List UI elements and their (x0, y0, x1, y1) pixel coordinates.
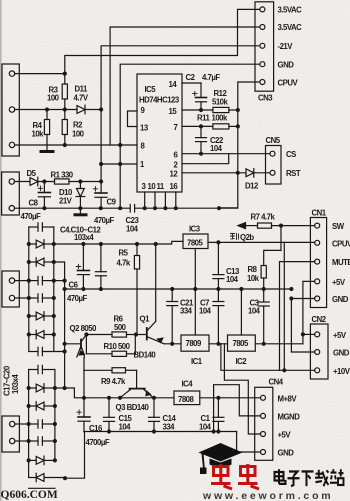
CN4 pin +5V (261, 432, 266, 437)
svg-text:470µF: 470µF (67, 294, 88, 303)
svg-text:R10 500: R10 500 (104, 342, 131, 351)
wire MUTE down column (279, 262, 281, 371)
wire bus to CN4 GND (237, 432, 261, 453)
svg-text:C9: C9 (107, 198, 117, 207)
svg-text:Q2b: Q2b (240, 233, 254, 242)
svg-text:CN4: CN4 (269, 378, 284, 387)
nodes on 14V bus (81, 242, 157, 246)
svg-text:510k: 510k (212, 98, 229, 107)
node at (64.8,145) (63, 143, 67, 147)
node D10 top (78, 179, 82, 183)
node CPUV crossing pin12 (236, 171, 240, 175)
wire CPUV: CN3 pin5 down to bus (219, 82, 260, 208)
capacitor C15 104 (104, 398, 115, 432)
node C8 top (42, 179, 46, 183)
wire R9 right to Q3 base (136, 370, 138, 388)
resistor R5 4.7k (vertical) (134, 244, 139, 334)
wire 11V bus into IC4 (65, 388, 174, 398)
connector J4 (2-pin, bottom) (2, 416, 19, 452)
wire Q2 emitter / R9 left down to 8V bus (83, 370, 85, 398)
svg-text:103x4: 103x4 (11, 374, 20, 394)
wire 3.5VAC-2: CN3 pin2 down left column (110, 27, 260, 145)
capacitor C1 104 (213, 398, 224, 432)
wire IC5 pin15 (182, 109, 213, 111)
capacitor C7 104 (213, 289, 224, 344)
svg-text:4.7k: 4.7k (117, 259, 131, 268)
svg-text:R8: R8 (248, 265, 258, 274)
ground bar under R4 (41, 150, 53, 153)
svg-text:www.eeworm.com: www.eeworm.com (202, 490, 333, 501)
diode row D1 (y=244) (29, 240, 54, 249)
diode row D7 (y=406) (29, 402, 55, 411)
svg-text:470µF: 470µF (94, 216, 115, 225)
svg-text:CN2: CN2 (312, 315, 327, 324)
svg-text:103x4: 103x4 (74, 233, 94, 242)
svg-text:7808: 7808 (178, 395, 195, 404)
lower bridge left rail (28, 370, 30, 478)
wire IC3 ground down (194, 249, 196, 336)
CN5 pin CS (270, 151, 275, 156)
svg-text:IC4: IC4 (182, 380, 194, 389)
svg-text:15: 15 (169, 107, 178, 116)
wire GND: CN3 pin4 down (120, 64, 260, 208)
svg-text:GND: GND (333, 349, 350, 358)
connector J1 (3-pin, top left) (2, 64, 19, 156)
wire IC2 ground up (240, 289, 242, 335)
svg-text:M+8V: M+8V (278, 395, 298, 404)
wire IC2 out 5V rail (255, 343, 303, 345)
CN3 pin CPUV (260, 80, 265, 85)
diode row D4 (y=334.5) (29, 330, 54, 339)
upper bridge right rail (53, 227, 55, 352)
node R7 right (279, 224, 283, 228)
resistor R9 4.7k (horizontal) (84, 368, 137, 373)
capacitor C6 470uF (electrolytic) (76, 244, 89, 289)
capacitor C2 4.7uF (electrolytic) (193, 83, 207, 110)
connector CN2 body (310, 324, 328, 379)
svg-text:IC5: IC5 (145, 85, 157, 94)
watermark character 虫 (1st, red) (211, 464, 232, 489)
wire IC5 pin1 (101, 163, 137, 165)
node at (64.8,73.6) (63, 72, 67, 76)
IC5 bottom pin stubs 3,10,11,16 (145, 192, 176, 208)
connector CN5 body (266, 146, 282, 185)
node C3 bottom (262, 342, 266, 346)
node +10V junction (282, 368, 286, 372)
wire MUTE stub (280, 261, 315, 263)
svg-text:104: 104 (210, 144, 223, 153)
diode D5 (15, 177, 55, 186)
svg-text:GND: GND (332, 295, 349, 304)
wire IC3 output 5V line to CN1 CPUV (208, 241, 315, 243)
zener diode D10 21V (vertical) (76, 182, 85, 209)
svg-text:CPUV: CPUV (278, 79, 299, 88)
svg-text:Q3 BD140: Q3 BD140 (116, 403, 150, 412)
nodes on bottom GND bus (107, 429, 221, 433)
capacitor C5 104 (95, 244, 106, 289)
node junctions on -21V column (99, 107, 103, 183)
wire J3 pin1 (15, 280, 29, 282)
resistor R10 500 (horizontal) (86, 335, 135, 357)
svg-text:R11: R11 (197, 114, 211, 123)
svg-text:HD74HC123: HD74HC123 (139, 96, 180, 105)
svg-text:21V: 21V (59, 197, 73, 206)
node Q1 base (134, 332, 138, 336)
wire +5V branch to CN4 (224, 344, 260, 434)
capacitor C13 104 column (213, 242, 224, 289)
wire +5V column right (303, 281, 315, 343)
watermark character 子 (288, 471, 300, 486)
capacitor C8 470uF (electrolytic) (38, 182, 50, 209)
node R11 right (236, 124, 240, 128)
node R3 bottom (63, 107, 67, 111)
capacitor row C18 (y=424) (29, 420, 55, 428)
wire GND column right (291, 299, 314, 353)
capacitor row C12 (y=351.5) (29, 347, 65, 355)
svg-text:GND: GND (278, 61, 295, 70)
svg-text:334: 334 (163, 423, 176, 432)
node junctions on GND column (118, 143, 122, 210)
svg-text:16: 16 (170, 182, 179, 191)
wire bottom stub under bridge (29, 487, 55, 489)
connector J3 (2-pin, mid) (2, 271, 19, 307)
wire IC5 pin2 (182, 154, 229, 164)
wire IC1 out to IC2 in (209, 343, 228, 345)
node at (65,478.2) (63, 476, 67, 480)
svg-text:CN5: CN5 (266, 136, 281, 145)
node D10 bottom (78, 206, 82, 210)
watermark character 下 (302, 471, 314, 486)
lower bridge rail nodes (27, 386, 58, 463)
wire Q1 collector vertical (155, 244, 157, 321)
diode row D9 (y=477.5) (29, 473, 65, 482)
node IC4 out (216, 396, 220, 400)
connector CN4 body (255, 387, 273, 460)
svg-text:SW: SW (332, 222, 345, 231)
node 9V at C7 bottom (216, 342, 220, 346)
svg-text:7805: 7805 (233, 339, 250, 348)
wire J1 pin3 to IC5 pin8 (15, 144, 137, 146)
op-amp IC2 7805 body (228, 335, 256, 351)
svg-text:100k: 100k (212, 114, 229, 123)
node R12 right (236, 108, 240, 112)
capacitor row C19 (y=441) (29, 437, 55, 445)
watermark character 载 (315, 470, 329, 486)
diode D12 (246, 169, 270, 178)
diode row D2 (y=262) (29, 258, 54, 267)
wire -21V: CN3 pin3 down to D11 node (101, 46, 260, 193)
node C2 bottom (199, 108, 203, 112)
wire J4 pin1 (15, 423, 29, 425)
GND bus y=208 left part (15, 207, 131, 209)
wire J4 pin2 (15, 440, 29, 442)
svg-text:CS: CS (286, 150, 296, 159)
CN3 pin -21V (260, 43, 265, 48)
svg-text:100: 100 (72, 130, 85, 139)
svg-text:CN1: CN1 (312, 209, 327, 218)
wire IC5 pin6 to CN5 CS (182, 153, 270, 155)
capacitor C3 104 (258, 289, 269, 344)
diode row D3 (y=316) (29, 312, 54, 321)
CN2 pin +10V (315, 368, 320, 373)
capacitor row C4 (y=227) (29, 223, 54, 231)
wire row C10 extension (54, 280, 65, 282)
wire 3.5VAC-1: CN3 pin1 to left connector pin1 (65, 9, 260, 73)
resistor R8 10k (vertical) (261, 266, 266, 290)
svg-text:7809: 7809 (186, 339, 203, 348)
svg-text:+10V: +10V (333, 367, 350, 376)
IC5 notch loop pins 9-13 (128, 111, 138, 127)
svg-text:+5V: +5V (278, 431, 292, 440)
svg-text:MUTE: MUTE (332, 258, 350, 267)
node CN2 +5V (301, 332, 305, 336)
node C22 top (199, 124, 203, 128)
svg-text:C8: C8 (29, 199, 39, 208)
wire +10V branch down and right to CN2 (221, 344, 315, 371)
capacitor row C11 (y=298) (29, 294, 54, 302)
CN4 pin MGND (261, 413, 266, 418)
nodes on x=64.6 rail (63, 279, 67, 391)
wire row D2 extension to vertical rail x=64.6 (54, 262, 65, 388)
svg-text:D5: D5 (27, 169, 37, 178)
svg-text:C2: C2 (186, 73, 196, 82)
svg-text:104: 104 (226, 275, 239, 284)
svg-text:R1 330: R1 330 (51, 171, 74, 180)
svg-text:D12: D12 (245, 182, 259, 191)
CN4 pin M+8V (261, 395, 266, 400)
wire R7 node down to R8 (264, 226, 281, 266)
transistor Q1 BD140 (136, 321, 164, 344)
svg-text:RST: RST (286, 169, 301, 178)
svg-text:IC1: IC1 (191, 357, 203, 366)
transistor Q2 8050 (65, 335, 87, 371)
svg-text:104: 104 (119, 423, 132, 432)
svg-text:BD140: BD140 (134, 351, 157, 360)
wire lower bridge row D6 extension (55, 387, 65, 389)
wire 12V line into IC1 (164, 343, 181, 345)
resistor R2 100 (vertical) (62, 110, 67, 146)
CN3 pin 3.5VAC (260, 7, 265, 12)
capacitor C16 4700uF (electrolytic) (77, 398, 90, 432)
svg-text:C6: C6 (69, 281, 79, 290)
nodes on 11V bus (82, 396, 156, 400)
svg-text:R9 4.7k: R9 4.7k (101, 377, 126, 386)
svg-text:D11: D11 (75, 85, 89, 94)
capacitor C9 470uF (electrolytic) (93, 187, 107, 209)
svg-text:R7 4.7k: R7 4.7k (251, 213, 276, 222)
svg-text:12: 12 (170, 170, 179, 179)
svg-text:IC3: IC3 (189, 225, 201, 234)
svg-text:10k: 10k (247, 274, 260, 283)
svg-text:IC2: IC2 (236, 357, 248, 366)
node R4 top (45, 107, 49, 111)
CN2 pin +5V (315, 332, 320, 337)
node C8 bottom (42, 206, 46, 210)
ground bar at D10 (75, 213, 86, 216)
svg-text:C16: C16 (89, 424, 103, 433)
svg-text:500: 500 (114, 323, 127, 332)
op-amp IC4 7808 body (174, 391, 200, 405)
svg-text:470µF: 470µF (21, 212, 42, 221)
capacitor C23 104 (series, horizontal) (130, 205, 238, 213)
wire IC5 pin14 to C2 (182, 82, 201, 84)
op-amp IC1 7809 body (181, 335, 209, 351)
connector J2 (2-pin, AC in upper) (2, 172, 20, 215)
wire CN2 +5V stub (303, 333, 315, 335)
svg-text:3.5VAC: 3.5VAC (278, 23, 303, 32)
svg-text:MGND: MGND (278, 413, 301, 422)
svg-text:7805: 7805 (187, 239, 204, 248)
resistor R12 510k (horizontal) (213, 107, 238, 112)
svg-text:CN3: CN3 (258, 94, 273, 103)
CN1 pin CPUV (315, 240, 320, 245)
node MGND at bus (212, 429, 216, 433)
CN3 pin GND (260, 62, 265, 67)
wire IC5 pin12 to D12 (182, 172, 246, 174)
wire IC4 out to CN4 M+8V (200, 397, 261, 399)
scan edge streak (0, 0, 2, 501)
resistor R6 500 (horizontal) (86, 332, 136, 337)
svg-text:4700µF: 4700µF (86, 438, 110, 447)
svg-text:100: 100 (47, 94, 60, 103)
svg-text:R5: R5 (119, 249, 129, 258)
CN1 pin +5V (315, 279, 320, 284)
CN3 pin 3.5VAC (260, 25, 265, 30)
wire J3 pin2 (15, 297, 29, 299)
svg-text:4.7V: 4.7V (74, 94, 89, 103)
node IC3 out (216, 240, 220, 244)
CN5 pin RST (270, 170, 275, 175)
svg-text:334: 334 (180, 307, 193, 316)
resistor R4 10k (vertical) (44, 110, 49, 151)
bottom GND bus y=431.5 (84, 431, 237, 433)
watermark character 虫 (2nd, red) (238, 464, 259, 489)
svg-text:7: 7 (174, 123, 178, 132)
nodes on GND bus (81, 287, 293, 291)
node C9 bottom (99, 206, 103, 210)
svg-text:3.5VAC: 3.5VAC (278, 6, 303, 15)
resistor R11 100k (horizontal) (213, 124, 238, 129)
wire J1 pin2 to D11 anode (15, 109, 77, 111)
CN1 pin GND (315, 296, 320, 301)
watermark character 电 (275, 469, 286, 484)
wire MGND route (214, 385, 261, 432)
capacitor row C17 (y=369.5) (29, 365, 55, 373)
connector CN1 body (310, 218, 326, 308)
svg-text:104: 104 (248, 307, 261, 316)
resistor R7 4.7k with arrow to Q2 base (238, 223, 315, 229)
CN2 pin GND (315, 350, 320, 355)
op IC5 HD74HC123 body (137, 74, 182, 192)
node C21 bottom (170, 342, 174, 346)
upper bridge left rail (28, 227, 30, 352)
wire IC5 pin7 (182, 125, 213, 127)
GND bus y=289 (65, 288, 292, 290)
svg-text:R2: R2 (73, 121, 83, 130)
svg-text:11: 11 (157, 182, 165, 191)
zener diode D11 4.7V (77, 105, 101, 114)
lower bridge right rail (54, 370, 56, 461)
label 到Q2b (to Q2 base) (230, 233, 254, 242)
stem to ground bar (79, 208, 81, 214)
svg-text:104: 104 (199, 423, 212, 432)
wire CPUV down column (283, 242, 285, 370)
transistor Q3 BD140 (120, 389, 153, 398)
node Q2 collector (84, 332, 88, 336)
svg-text:+5V: +5V (332, 278, 346, 287)
svg-text:14: 14 (169, 80, 178, 89)
node C22 bottom (199, 152, 203, 156)
svg-text:CPUV: CPUV (332, 240, 350, 249)
connector CN3 body (255, 2, 274, 91)
CN1 pin SW (315, 223, 320, 228)
wire 14V bus to IC3 input (54, 241, 183, 244)
watermark graduation cap icon (199, 443, 243, 474)
svg-text:104: 104 (199, 307, 212, 316)
capacitor C14 334 (149, 398, 160, 432)
capacitor C22 104 (196, 126, 207, 153)
svg-text:4.7µF: 4.7µF (202, 73, 220, 82)
diode row D6 (y=388) (29, 384, 55, 393)
svg-text:10k: 10k (32, 130, 45, 139)
upper bridge rail nodes (27, 242, 56, 337)
svg-text:10: 10 (148, 182, 157, 191)
svg-text:+5V: +5V (333, 331, 347, 340)
svg-text:-21V: -21V (278, 42, 294, 51)
svg-text:GND: GND (278, 449, 295, 458)
resistor R1 330 (horizontal) (55, 179, 102, 184)
watermark character 站 (330, 469, 344, 485)
node CN1 GND (289, 296, 293, 300)
wire J1 pin1 (15, 73, 65, 75)
capacitor C21 334 (167, 289, 178, 344)
svg-text:104: 104 (126, 225, 139, 234)
svg-text:13: 13 (140, 124, 149, 133)
diode row D8 (y=460.4) (29, 456, 55, 465)
svg-text:Q1: Q1 (140, 315, 151, 324)
resistor R3 100 (vertical) (62, 74, 67, 110)
svg-text:Q606.COM: Q606.COM (1, 489, 58, 501)
op-amp IC3 7805 body (183, 234, 208, 249)
wire lower-bridge return jog (65, 432, 85, 479)
svg-text:Q2 8050: Q2 8050 (70, 324, 98, 333)
CN1 pin MUTE (315, 259, 320, 264)
capacitor row C10 (y=280.6) (29, 276, 54, 284)
nodes of bottom stubs on bus (143, 206, 222, 210)
CN4 pin GND (261, 450, 266, 455)
